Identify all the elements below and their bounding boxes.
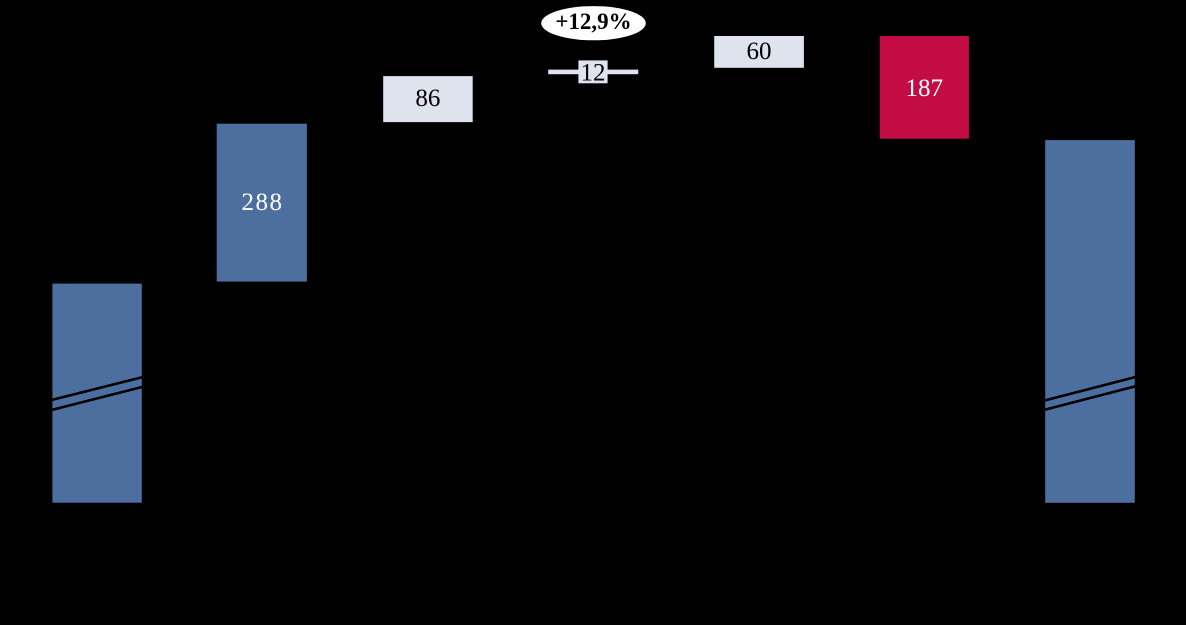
svg-text:60: 60 bbox=[747, 38, 772, 65]
axis break left (two diagonal lines) bbox=[50, 377, 144, 401]
svg-text:288: 288 bbox=[242, 189, 284, 216]
axis break right (two diagonal lines) bbox=[1043, 377, 1137, 401]
bar: initial total (left, blue, axis-broken) bbox=[52, 284, 141, 503]
svg-text:+12,9%: +12,9% bbox=[555, 9, 631, 34]
bar: increase 86 (light) bbox=[383, 76, 473, 122]
ellipse callout +12,9% bbox=[541, 6, 646, 40]
bar: final total (right, blue, axis-broken) bbox=[1045, 140, 1135, 503]
svg-text:86: 86 bbox=[415, 85, 440, 112]
svg-text:12: 12 bbox=[581, 60, 606, 87]
whisker line for 12 bbox=[548, 70, 638, 75]
bar: decrease 187 (red) bbox=[880, 36, 969, 139]
small box 12 (light) bbox=[578, 60, 607, 83]
bar: increase 288 (blue) bbox=[217, 124, 307, 282]
bar: increase 60 (light) bbox=[714, 36, 804, 68]
svg-text:187: 187 bbox=[906, 75, 944, 102]
